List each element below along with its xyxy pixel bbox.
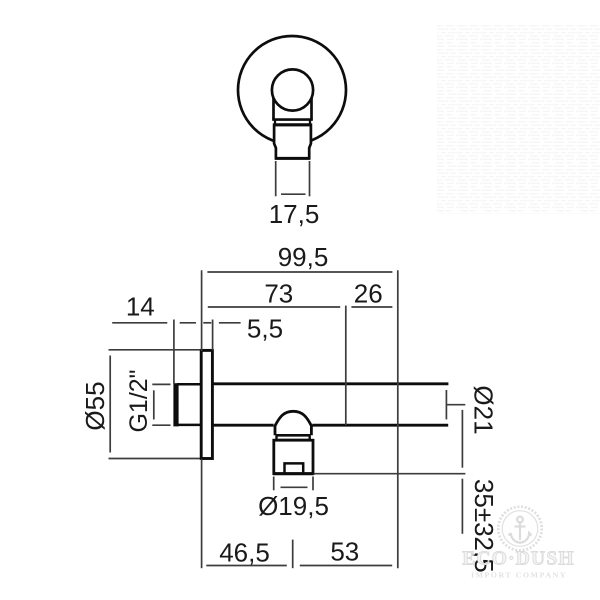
- svg-text:17,5: 17,5: [269, 199, 320, 229]
- svg-text:5,5: 5,5: [247, 314, 283, 344]
- svg-text:Ø55: Ø55: [80, 381, 110, 430]
- svg-text:53: 53: [330, 537, 359, 567]
- svg-text:14: 14: [126, 292, 155, 322]
- svg-text:IMPORT COMPANY: IMPORT COMPANY: [471, 571, 567, 580]
- svg-text:26: 26: [354, 279, 383, 309]
- svg-text:Ø19,5: Ø19,5: [258, 491, 329, 521]
- svg-text:G1/2": G1/2": [125, 369, 153, 432]
- svg-text:99,5: 99,5: [278, 242, 329, 272]
- svg-text:73: 73: [264, 279, 293, 309]
- svg-text:ECO·DUSH: ECO·DUSH: [462, 549, 575, 570]
- svg-text:Ø21: Ø21: [469, 385, 499, 434]
- svg-text:46,5: 46,5: [219, 538, 270, 568]
